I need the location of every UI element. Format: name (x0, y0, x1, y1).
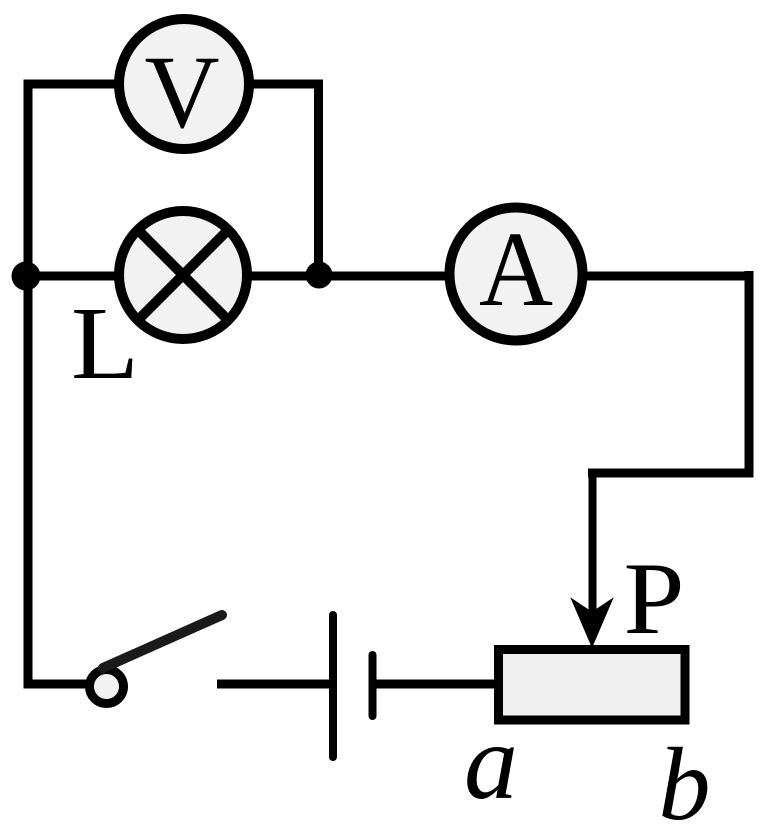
wire: vertical drop from voltmeter branch to right node (314, 80, 323, 277)
svg-text:V: V (144, 35, 219, 150)
wire: lamp to ammeter through right node (248, 272, 448, 281)
wire: top horizontal left rail to voltmeter (24, 80, 119, 89)
wire: switch side to battery positive plate (217, 680, 330, 689)
node: right junction dot (306, 262, 333, 289)
wire: left rail vertical from top corner to bottom corner (24, 80, 33, 689)
lamp L circle (119, 211, 247, 339)
ammeter A (450, 208, 583, 341)
battery short plate (negative) (369, 655, 377, 716)
wire: jog horizontal toward slider (588, 469, 754, 478)
node: left junction dot (12, 262, 41, 291)
svg-text:A: A (479, 211, 553, 329)
wire: slider shaft vertical (589, 469, 597, 629)
lamp cross stroke 1 (138, 230, 228, 320)
svg-text:a: a (464, 703, 518, 822)
switch lever (open) (103, 615, 222, 668)
svg-text:P: P (624, 542, 685, 656)
rheostat body (a-b) (499, 650, 686, 721)
wire: left node to lamp (28, 272, 118, 281)
svg-text:L: L (71, 286, 139, 401)
switch pivot circle (90, 670, 124, 704)
slider arrow P arrowhead (573, 600, 612, 646)
lamp cross stroke 2 (138, 230, 228, 320)
svg-text:b: b (659, 727, 711, 831)
wire: right rail vertical down (745, 271, 754, 478)
wire: ammeter right to right corner (585, 272, 754, 281)
voltmeter V (119, 19, 249, 149)
wire: voltmeter right to top of parallel branch (250, 80, 323, 89)
wire: battery to rheostat terminal a (376, 680, 498, 689)
wire: bottom-left rail to switch (24, 680, 89, 689)
battery long plate (positive) (329, 615, 337, 757)
